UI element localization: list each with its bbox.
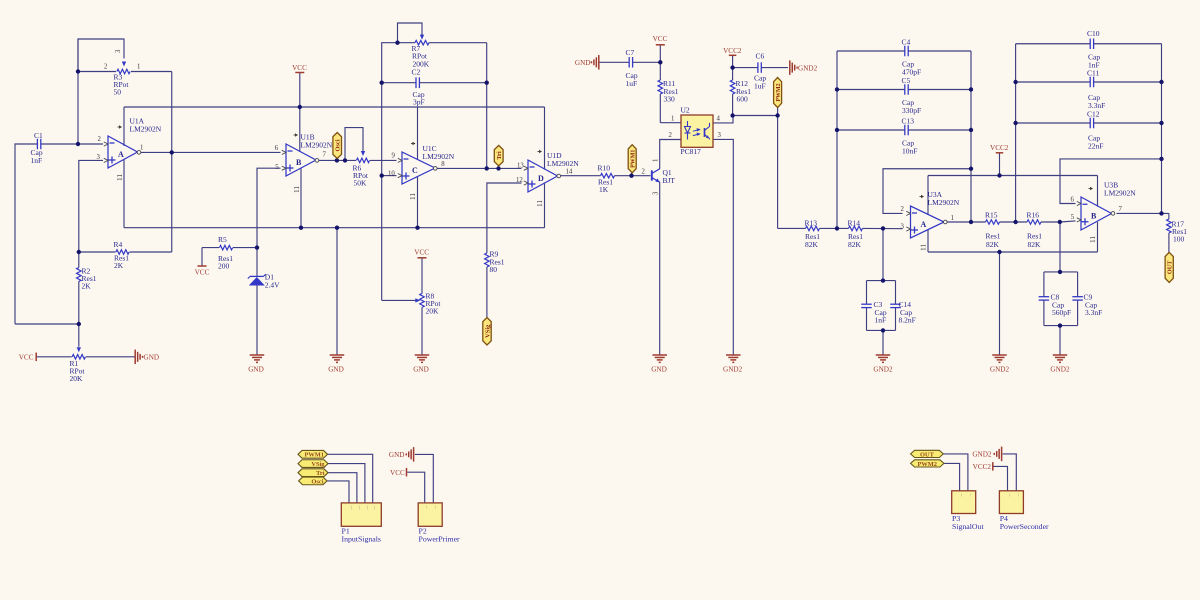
svg-text:1: 1 — [137, 64, 140, 71]
svg-text:PWM2: PWM2 — [776, 83, 782, 101]
svg-text:R14: R14 — [848, 219, 861, 228]
svg-text:11: 11 — [408, 193, 417, 200]
svg-text:2: 2 — [104, 64, 108, 71]
svg-text:22nF: 22nF — [1088, 142, 1103, 151]
svg-text:VSig: VSig — [484, 324, 491, 338]
svg-text:1nF: 1nF — [875, 316, 887, 325]
svg-text:B: B — [296, 158, 302, 167]
svg-text:VCC: VCC — [292, 64, 307, 72]
svg-text:3: 3 — [115, 49, 122, 53]
svg-text:PowerSeconder: PowerSeconder — [1000, 522, 1049, 531]
svg-text:2: 2 — [98, 136, 102, 143]
svg-text:600: 600 — [737, 95, 749, 104]
svg-text:Tri: Tri — [316, 470, 325, 477]
svg-text:....: .... — [374, 506, 379, 510]
svg-text:560pF: 560pF — [1052, 308, 1071, 317]
svg-text:B: B — [1091, 211, 1097, 220]
svg-text:VCC2: VCC2 — [973, 463, 992, 471]
svg-text:2: 2 — [901, 206, 905, 213]
svg-text:5: 5 — [275, 164, 279, 171]
svg-text:3: 3 — [653, 191, 660, 195]
svg-text:11: 11 — [292, 186, 301, 193]
svg-text:...: ... — [434, 506, 439, 509]
svg-text:OUT: OUT — [920, 451, 935, 458]
svg-text:C1: C1 — [34, 131, 43, 140]
svg-text:GND2: GND2 — [723, 366, 743, 374]
svg-text:5: 5 — [1071, 214, 1075, 221]
svg-text:11: 11 — [115, 174, 124, 181]
svg-text:LM2902N: LM2902N — [301, 141, 333, 150]
svg-text:4: 4 — [717, 116, 721, 123]
svg-text:12: 12 — [516, 177, 523, 184]
svg-text:82K: 82K — [848, 240, 862, 249]
svg-text:6: 6 — [1071, 197, 1075, 204]
svg-text:1: 1 — [671, 116, 674, 123]
svg-text:...: ... — [1017, 494, 1022, 497]
svg-text:R5: R5 — [218, 235, 227, 244]
svg-text:80: 80 — [490, 265, 498, 274]
svg-text:Tri: Tri — [496, 151, 503, 160]
svg-text:82K: 82K — [986, 240, 1000, 249]
svg-text:11: 11 — [535, 200, 544, 207]
svg-text:82K: 82K — [805, 240, 819, 249]
svg-text:9: 9 — [392, 152, 396, 159]
svg-text:6: 6 — [275, 145, 279, 152]
svg-text:....: .... — [350, 506, 355, 510]
svg-text:2K: 2K — [114, 261, 124, 270]
svg-text:82K: 82K — [1028, 240, 1042, 249]
svg-text:VCC: VCC — [653, 35, 668, 43]
svg-text:....: .... — [366, 506, 371, 510]
svg-text:GND: GND — [328, 366, 344, 374]
svg-text:C10: C10 — [1087, 29, 1100, 38]
svg-text:U2: U2 — [681, 106, 690, 115]
svg-text:C6: C6 — [756, 52, 765, 61]
svg-text:...: ... — [969, 494, 974, 497]
svg-text:PowerPrimer: PowerPrimer — [419, 535, 461, 544]
svg-text:C: C — [412, 166, 418, 175]
svg-text:R4: R4 — [114, 240, 123, 249]
svg-text:D: D — [538, 174, 544, 183]
svg-text:7: 7 — [1119, 206, 1123, 213]
svg-text:VCC2: VCC2 — [723, 47, 742, 55]
svg-text:3: 3 — [97, 154, 101, 161]
svg-text:GND: GND — [248, 366, 264, 374]
svg-text:14: 14 — [566, 169, 573, 176]
svg-text:GND2: GND2 — [798, 64, 818, 72]
svg-text:C12: C12 — [1087, 110, 1100, 119]
svg-text:OUT: OUT — [1167, 260, 1174, 274]
svg-text:GND: GND — [575, 59, 591, 67]
svg-text:C4: C4 — [902, 38, 911, 47]
svg-text:...: ... — [1009, 494, 1014, 497]
svg-text:50: 50 — [114, 88, 122, 97]
svg-text:GND2: GND2 — [1050, 366, 1070, 374]
svg-text:PWM1: PWM1 — [304, 452, 324, 459]
svg-text:VCC: VCC — [390, 469, 405, 477]
svg-text:2: 2 — [642, 169, 646, 176]
svg-text:3.3nF: 3.3nF — [1085, 308, 1102, 317]
svg-text:LM2902N: LM2902N — [423, 152, 455, 161]
svg-text:PWM1: PWM1 — [631, 150, 637, 168]
svg-text:Osci: Osci — [335, 139, 342, 151]
svg-text:InputSignals: InputSignals — [342, 535, 381, 544]
svg-text:VCC: VCC — [19, 354, 34, 362]
svg-text:330pF: 330pF — [902, 106, 921, 115]
svg-text:C7: C7 — [626, 48, 635, 57]
svg-text:13: 13 — [517, 162, 524, 169]
svg-text:GND2: GND2 — [972, 451, 992, 459]
svg-text:50K: 50K — [354, 179, 368, 188]
svg-text:GND: GND — [389, 451, 405, 459]
svg-text:2K: 2K — [82, 282, 92, 291]
svg-text:1K: 1K — [599, 185, 609, 194]
svg-text:10: 10 — [388, 170, 395, 177]
svg-text:PWM2: PWM2 — [917, 461, 937, 468]
svg-text:R15: R15 — [985, 211, 998, 220]
svg-text:VCC2: VCC2 — [990, 144, 1009, 152]
svg-text:C2: C2 — [412, 68, 421, 77]
svg-text:GND2: GND2 — [873, 366, 893, 374]
svg-text:11: 11 — [1088, 236, 1097, 243]
svg-text:3: 3 — [718, 132, 722, 139]
svg-text:1: 1 — [951, 215, 954, 222]
svg-text:1uF: 1uF — [626, 79, 638, 88]
svg-text:C13: C13 — [902, 117, 915, 126]
svg-text:2: 2 — [669, 132, 673, 139]
svg-text:200: 200 — [218, 262, 230, 271]
svg-text:8: 8 — [441, 161, 445, 168]
svg-text:LM2902N: LM2902N — [928, 198, 960, 207]
svg-text:VCC: VCC — [414, 249, 429, 257]
svg-text:SignalOut: SignalOut — [952, 522, 984, 531]
svg-text:1: 1 — [653, 159, 660, 162]
svg-text:A: A — [118, 150, 124, 159]
svg-text:...: ... — [961, 494, 966, 497]
svg-text:VSig: VSig — [311, 461, 325, 468]
svg-text:1: 1 — [140, 145, 143, 152]
svg-text:GND: GND — [651, 366, 667, 374]
svg-text:1nF: 1nF — [31, 156, 43, 165]
svg-text:...: ... — [426, 506, 431, 509]
svg-text:10nF: 10nF — [902, 147, 917, 156]
svg-text:GND2: GND2 — [990, 366, 1010, 374]
svg-text:R16: R16 — [1027, 211, 1040, 220]
svg-text:LM2902N: LM2902N — [1104, 189, 1136, 198]
svg-text:1uF: 1uF — [754, 82, 766, 91]
svg-text:3pF: 3pF — [413, 98, 425, 107]
svg-text:100: 100 — [1173, 235, 1185, 244]
svg-text:R10: R10 — [598, 164, 611, 173]
svg-text:R13: R13 — [805, 219, 818, 228]
svg-text:....: .... — [358, 506, 363, 510]
svg-text:LM2902N: LM2902N — [130, 125, 162, 134]
svg-text:GND: GND — [413, 366, 429, 374]
svg-text:PC817: PC817 — [681, 147, 702, 156]
svg-text:7: 7 — [323, 152, 327, 159]
svg-text:VCC: VCC — [195, 269, 210, 277]
svg-text:GND: GND — [144, 354, 160, 362]
svg-text:BJT: BJT — [663, 176, 676, 185]
svg-text:C11: C11 — [1087, 69, 1099, 78]
svg-text:20K: 20K — [426, 307, 440, 316]
svg-text:11: 11 — [919, 244, 928, 251]
svg-text:8.2nF: 8.2nF — [899, 316, 916, 325]
svg-text:LM2902N: LM2902N — [547, 159, 579, 168]
svg-text:C5: C5 — [902, 76, 911, 85]
svg-text:330: 330 — [664, 95, 676, 104]
svg-text:Osci: Osci — [311, 478, 323, 485]
svg-text:A: A — [921, 220, 927, 229]
svg-text:3: 3 — [901, 224, 905, 231]
svg-text:2.4V: 2.4V — [265, 281, 280, 290]
svg-text:20K: 20K — [70, 374, 84, 383]
